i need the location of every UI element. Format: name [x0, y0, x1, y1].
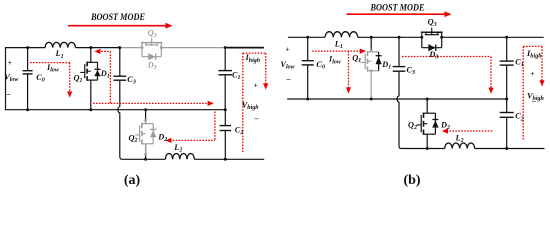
svg-text:Vlow: Vlow — [280, 60, 295, 71]
svg-text:+: + — [530, 69, 534, 78]
svg-text:−: − — [6, 90, 11, 99]
svg-text:Ihigh: Ihigh — [526, 49, 542, 60]
svg-text:C3: C3 — [127, 75, 136, 86]
svg-text:+: + — [254, 80, 258, 89]
svg-text:C1: C1 — [232, 71, 241, 82]
svg-text:Ilow: Ilow — [328, 55, 342, 66]
svg-text:D3: D3 — [147, 60, 157, 71]
svg-text:C2: C2 — [235, 126, 244, 137]
svg-text:C3: C3 — [407, 65, 416, 76]
svg-text:Vhigh: Vhigh — [242, 101, 260, 112]
svg-text:Ilow: Ilow — [46, 63, 60, 74]
svg-text:D2: D2 — [440, 121, 450, 132]
svg-text:L2: L2 — [173, 143, 182, 154]
svg-text:BOOST MODE: BOOST MODE — [370, 3, 425, 14]
svg-text:Ihigh: Ihigh — [245, 53, 261, 64]
svg-text:Vlow: Vlow — [4, 73, 19, 84]
svg-text:+: + — [8, 58, 12, 67]
svg-text:C0: C0 — [36, 73, 45, 84]
svg-text:(b): (b) — [403, 173, 420, 188]
svg-text:Q1: Q1 — [352, 54, 361, 65]
svg-text:D1: D1 — [381, 60, 391, 71]
svg-text:Q2: Q2 — [408, 120, 417, 131]
svg-text:(a): (a) — [124, 173, 141, 188]
svg-text:−: − — [531, 97, 536, 106]
svg-text:Q3: Q3 — [428, 18, 437, 29]
svg-text:−: − — [254, 115, 259, 124]
svg-text:+: + — [285, 45, 289, 54]
svg-text:BOOST MODE: BOOST MODE — [90, 12, 145, 23]
svg-text:L1: L1 — [334, 39, 343, 50]
svg-text:Q1: Q1 — [74, 74, 83, 85]
svg-text:C0: C0 — [316, 60, 325, 71]
svg-text:D2: D2 — [157, 132, 167, 143]
svg-text:L1: L1 — [55, 49, 64, 60]
svg-text:Q3: Q3 — [148, 28, 157, 39]
svg-text:L2: L2 — [455, 133, 464, 144]
svg-text:C2: C2 — [515, 112, 524, 123]
svg-text:D1: D1 — [100, 69, 110, 80]
svg-text:−: − — [286, 75, 291, 84]
svg-text:D3: D3 — [428, 50, 438, 61]
